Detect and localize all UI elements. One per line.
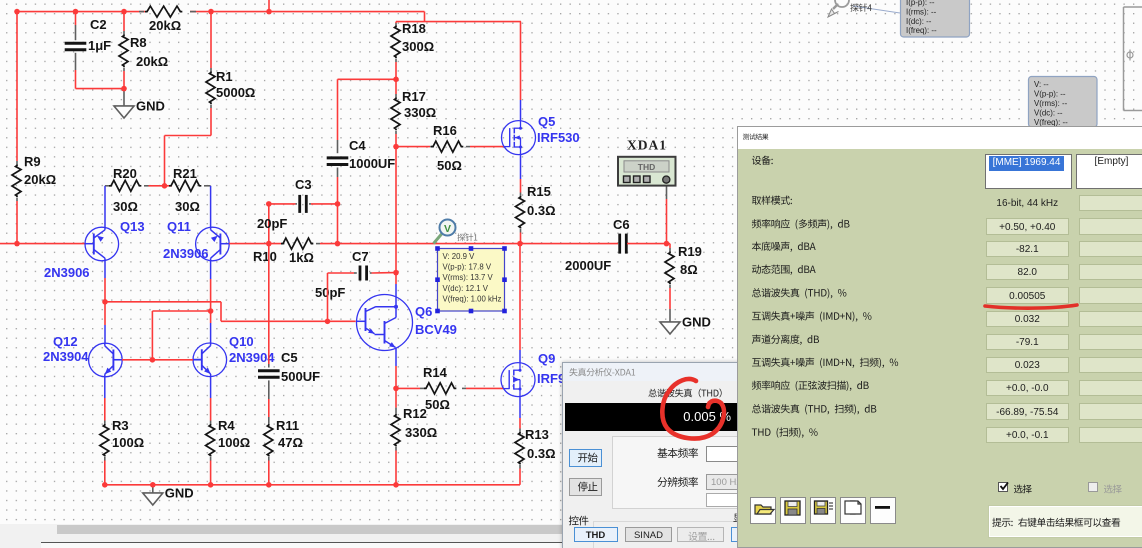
wire node to Q12 collector: [104, 302, 106, 325]
svg-text:100Ω: 100Ω: [218, 435, 250, 450]
resistor R8: [123, 31, 125, 35]
capacitor C5 plates: [258, 369, 280, 372]
wire R14 to Q9 gate: [466, 387, 504, 389]
wire x396 column R17 to C7 to Q6 collector: [395, 147, 397, 273]
capacitor C6 plates: [618, 234, 621, 254]
wire bus corner to R18 row: [424, 12, 426, 22]
ground GND bottom: [152, 485, 154, 493]
svg-text:330Ω: 330Ω: [404, 105, 436, 120]
wire top supply bus: [17, 11, 145, 13]
minimize dash icon: [875, 506, 890, 509]
svg-text:Q10: Q10: [229, 334, 254, 349]
svg-text:2N3906: 2N3906: [44, 265, 90, 280]
svg-text:C7: C7: [352, 249, 369, 264]
wire Q12 base to Q10 base: [113, 359, 122, 361]
svg-text:20kΩ: 20kΩ: [149, 18, 181, 33]
wire XDA1 to output junction: [666, 183, 668, 199]
ground: [114, 105, 134, 107]
svg-text:XDA1: XDA1: [627, 138, 667, 153]
svg-text:R11: R11: [276, 418, 299, 433]
svg-text:50Ω: 50Ω: [437, 158, 462, 173]
svg-text:R8: R8: [130, 35, 147, 50]
wire junction to Q10 collector: [210, 311, 212, 323]
resistor R15: [520, 193, 522, 197]
save as floppy icon: [814, 501, 833, 514]
resistor R18: [395, 22, 397, 23]
svg-text:Q5: Q5: [538, 114, 555, 129]
svg-text:50Ω: 50Ω: [425, 397, 450, 412]
transistor Q10 2N3904: [193, 343, 227, 377]
resistor R19 body: [665, 252, 674, 285]
resistor R3 body: [100, 424, 109, 457]
capacitor C7 plates: [359, 266, 362, 281]
svg-text:C4: C4: [349, 138, 366, 153]
svg-text:R13: R13: [525, 427, 549, 442]
wire C5 to R11: [268, 399, 270, 417]
wire Q10 emitter to R4: [210, 376, 212, 398]
wire emitter node to R14: [396, 387, 420, 389]
resistor R13: [519, 429, 521, 433]
svg-text:Q6: Q6: [415, 304, 432, 319]
svg-text:R1: R1: [216, 69, 233, 84]
svg-text:V(dc): 12.1 V: V(dc): 12.1 V: [443, 284, 489, 293]
open folder icon: [755, 505, 774, 514]
svg-text:R17: R17: [402, 89, 426, 104]
wire C4 bottom to C3 junction and output: [337, 177, 339, 244]
svg-text:V(rms): 13.7 V: V(rms): 13.7 V: [443, 273, 494, 282]
wire left rail x17 down to R9: [16, 12, 18, 161]
wire C5 R11 branch from output rail: [268, 244, 270, 364]
svg-text:C3: C3: [295, 177, 312, 192]
capacitor C7: [328, 272, 355, 274]
capacitor C4: [337, 140, 339, 153]
resistor R9 body: [12, 165, 21, 198]
svg-text:330Ω: 330Ω: [405, 425, 437, 440]
svg-text:Q12: Q12: [53, 334, 78, 349]
wire to off-page top at node x269: [268, 0, 270, 12]
svg-text:V: V: [444, 223, 451, 235]
capacitor C2 plates: [65, 42, 87, 45]
resistor R11: [268, 417, 270, 424]
resistor R 20k top body: [145, 6, 182, 17]
resistor R9: [16, 161, 18, 165]
svg-text:V: --: V: --: [1034, 80, 1049, 89]
wire Q5 drain from top: [520, 22, 522, 100]
svg-text:C2: C2: [90, 17, 107, 32]
wire Q11 collector down: [210, 261, 212, 280]
wire R8 bottom: [123, 71, 125, 89]
resistor R14: [420, 387, 424, 389]
svg-text:I(rms): --: I(rms): --: [906, 8, 937, 17]
svg-text:R10: R10: [253, 249, 277, 264]
svg-text:R19: R19: [678, 244, 702, 259]
wire Q12 emitter to R3: [104, 377, 106, 399]
resistor R13 body: [515, 432, 524, 465]
resistor R16 body: [431, 141, 463, 152]
wire R12 to ground bus: [395, 451, 397, 485]
svg-text:THD: THD: [638, 162, 655, 172]
node probe1 yellow readout box: [435, 246, 507, 313]
svg-text:Q13: Q13: [120, 219, 145, 234]
svg-text:300Ω: 300Ω: [402, 39, 434, 54]
svg-text:I(freq): --: I(freq): --: [906, 26, 937, 35]
wire R20 to junction: [149, 185, 165, 187]
wire R4 to ground bus: [210, 461, 212, 485]
svg-text:R9: R9: [24, 154, 41, 169]
svg-text:GND: GND: [136, 99, 165, 114]
resistor R12 body: [391, 414, 400, 447]
wire C7 right: [372, 272, 397, 274]
wire mirror node horizontal: [105, 301, 221, 303]
wire Q13 emitter chain down to Q12 collector node: [104, 261, 106, 279]
transistor Q9 IRF9530: [501, 363, 535, 397]
svg-text:1000UF: 1000UF: [349, 156, 395, 171]
svg-text:C6: C6: [613, 217, 630, 232]
wire R3 to ground bus: [104, 461, 106, 485]
instrument XDA1 icon: [618, 157, 676, 186]
svg-text:8Ω: 8Ω: [680, 262, 698, 277]
svg-text:500UF: 500UF: [281, 369, 320, 384]
transistor Q6 BCV49 darlington: [357, 295, 413, 351]
svg-text:47Ω: 47Ω: [278, 435, 303, 450]
resistor R1 body: [206, 72, 215, 105]
resistor R20: [105, 185, 112, 187]
resistor R1: [210, 68, 212, 72]
node probe4 gray readout box: [901, 0, 970, 37]
svg-text:I(p-p): --: I(p-p): --: [906, 0, 935, 7]
test results panel: [737, 126, 1142, 548]
svg-text:R16: R16: [433, 123, 457, 138]
wire C2 bottom to R8 bottom junction: [75, 70, 77, 89]
svg-text:R12: R12: [403, 406, 427, 421]
resistor R12: [395, 388, 397, 407]
capacitor C2: [75, 25, 77, 40]
wire R11 to ground bus: [268, 461, 270, 485]
wire Q9 source to R13: [519, 397, 521, 418]
resistor R16: [430, 146, 434, 148]
adjacent sheet window corner: [1124, 7, 1142, 111]
wire ground bus bottom: [105, 484, 520, 486]
svg-text:V: 20.9 V: V: 20.9 V: [443, 252, 476, 261]
resistor R14 body: [424, 383, 456, 394]
transistor Q13 2N3906: [85, 227, 119, 261]
svg-text:0.3Ω: 0.3Ω: [527, 203, 556, 218]
wire C3 right: [311, 203, 338, 205]
svg-text:30Ω: 30Ω: [113, 199, 138, 214]
capacitor C5: [268, 364, 270, 368]
resistor R21: [165, 185, 173, 187]
resistor R3: [104, 421, 106, 425]
save floppy icon: [785, 501, 800, 515]
wire R17 junction to R16: [396, 146, 430, 148]
svg-text:Q11: Q11: [167, 219, 191, 234]
svg-text:2000UF: 2000UF: [565, 258, 611, 273]
probe 1 voltage probe icon: [434, 220, 456, 244]
svg-text:50pF: 50pF: [315, 285, 345, 300]
svg-text:R3: R3: [112, 418, 129, 433]
svg-text:R14: R14: [423, 365, 448, 380]
wire R1 to R20 R21 junction: [210, 108, 212, 136]
transistor Q5 IRF530: [502, 121, 536, 155]
resistor R? 20k top leads: [139, 11, 144, 13]
wire output rail middle: [338, 243, 619, 245]
wire R20 left down to Q13 emitter: [104, 186, 106, 227]
wire C7 left drop to Q6 base rail: [327, 273, 329, 321]
resistor R19: [667, 243, 671, 245]
wire R21 right down to Q11 emitter: [210, 186, 212, 227]
wire Q11 base to R10: [229, 243, 281, 245]
wire Q9 drain from output junction: [519, 244, 521, 350]
node voltage gray readout box: [1029, 77, 1098, 128]
svg-text:GND: GND: [682, 315, 711, 330]
hand-drawn red circle annotation: [654, 362, 744, 457]
resistor R17: [395, 79, 397, 94]
svg-text:100Ω: 100Ω: [112, 435, 144, 450]
probe 4 current probe icon: [828, 0, 900, 17]
svg-text:R15: R15: [527, 184, 551, 199]
wire R15 to output: [520, 233, 522, 244]
wire C3 left: [269, 203, 296, 205]
wire C4 top to R17 junction: [338, 78, 397, 80]
wire R17 bottom: [395, 134, 397, 147]
svg-text:BCV49: BCV49: [415, 322, 457, 337]
svg-text:V(p-p): 17.8 V: V(p-p): 17.8 V: [443, 263, 492, 272]
svg-text:V(freq): 1.00 kHz: V(freq): 1.00 kHz: [443, 295, 502, 304]
svg-text:20pF: 20pF: [257, 216, 287, 231]
svg-text:GND: GND: [165, 486, 194, 501]
resistor R15 body: [516, 196, 525, 229]
wire junction horizontal to base rail: [152, 310, 210, 312]
capacitor C3 plates: [298, 195, 301, 213]
svg-text:C5: C5: [281, 350, 298, 365]
svg-text:R18: R18: [402, 21, 426, 36]
svg-text:20kΩ: 20kΩ: [136, 54, 168, 69]
resistor R21 body: [169, 180, 201, 191]
capacitor C3: [296, 203, 298, 205]
wire R19 bottom: [669, 288, 671, 309]
red underline annotation on THD value: [982, 301, 1102, 315]
svg-text:V(dc): --: V(dc): --: [1034, 109, 1063, 118]
resistor R4: [210, 421, 212, 425]
wire Q6 emitter down: [395, 351, 397, 367]
svg-text:1μF: 1μF: [88, 38, 111, 53]
resistor R10 body: [281, 238, 313, 249]
transistor Q12 2N3904: [89, 343, 123, 377]
wire Q5 source to R15: [520, 155, 522, 179]
svg-text:R21: R21: [173, 166, 197, 181]
wire R1 branch from bus: [210, 12, 212, 68]
svg-text:R20: R20: [113, 166, 137, 181]
resistor R4 body: [206, 424, 215, 457]
capacitor C4 plates: [327, 156, 349, 159]
junction dots: [14, 9, 20, 15]
svg-text:V(rms): --: V(rms): --: [1034, 99, 1068, 108]
svg-text:1kΩ: 1kΩ: [289, 250, 314, 265]
svg-text:0.3Ω: 0.3Ω: [527, 446, 556, 461]
wire R10 right: [320, 243, 338, 245]
resistor R20 body: [109, 180, 141, 191]
ground: [660, 321, 680, 323]
wire R8 branch: [123, 12, 125, 31]
svg-text:R4: R4: [218, 418, 235, 433]
wire R16 to Q5 gate: [470, 146, 504, 148]
svg-text:IRF530: IRF530: [537, 130, 580, 145]
svg-text:I(dc): --: I(dc): --: [906, 17, 932, 26]
svg-text:20kΩ: 20kΩ: [24, 172, 56, 187]
resistor R8 body: [119, 35, 128, 68]
ground GND right: [669, 309, 671, 322]
svg-text:2N3904: 2N3904: [43, 349, 89, 364]
resistor R17 body: [391, 98, 400, 131]
svg-text:5000Ω: 5000Ω: [216, 85, 255, 100]
svg-text:V(p-p): --: V(p-p): --: [1034, 89, 1066, 98]
wire R18 bottom: [395, 62, 397, 79]
bottom horizontal scrollbar: [0, 524, 737, 548]
ground GND near R8: [123, 89, 125, 106]
svg-text:Q9: Q9: [538, 351, 555, 366]
wire R13 to ground bus: [519, 469, 521, 485]
svg-text:30Ω: 30Ω: [175, 199, 200, 214]
capacitor C3 branch: [268, 204, 270, 244]
resistor R10: [281, 243, 285, 245]
resistor R11 body: [264, 424, 273, 457]
wire R9 to output node: [16, 201, 18, 244]
wire C2 branch: [75, 12, 77, 25]
wire C4 column: [337, 79, 339, 140]
wire output rail left segment: [0, 243, 85, 245]
resistor R18 body: [391, 26, 400, 59]
transistor Q11 2N3906: [196, 227, 230, 261]
report pages icon: [845, 501, 861, 514]
wire C6 to out junction: [627, 243, 667, 245]
ground: [143, 492, 163, 494]
svg-text:2N3906: 2N3906: [163, 246, 209, 261]
distortion analyzer XDA1 dialog: [562, 362, 760, 548]
